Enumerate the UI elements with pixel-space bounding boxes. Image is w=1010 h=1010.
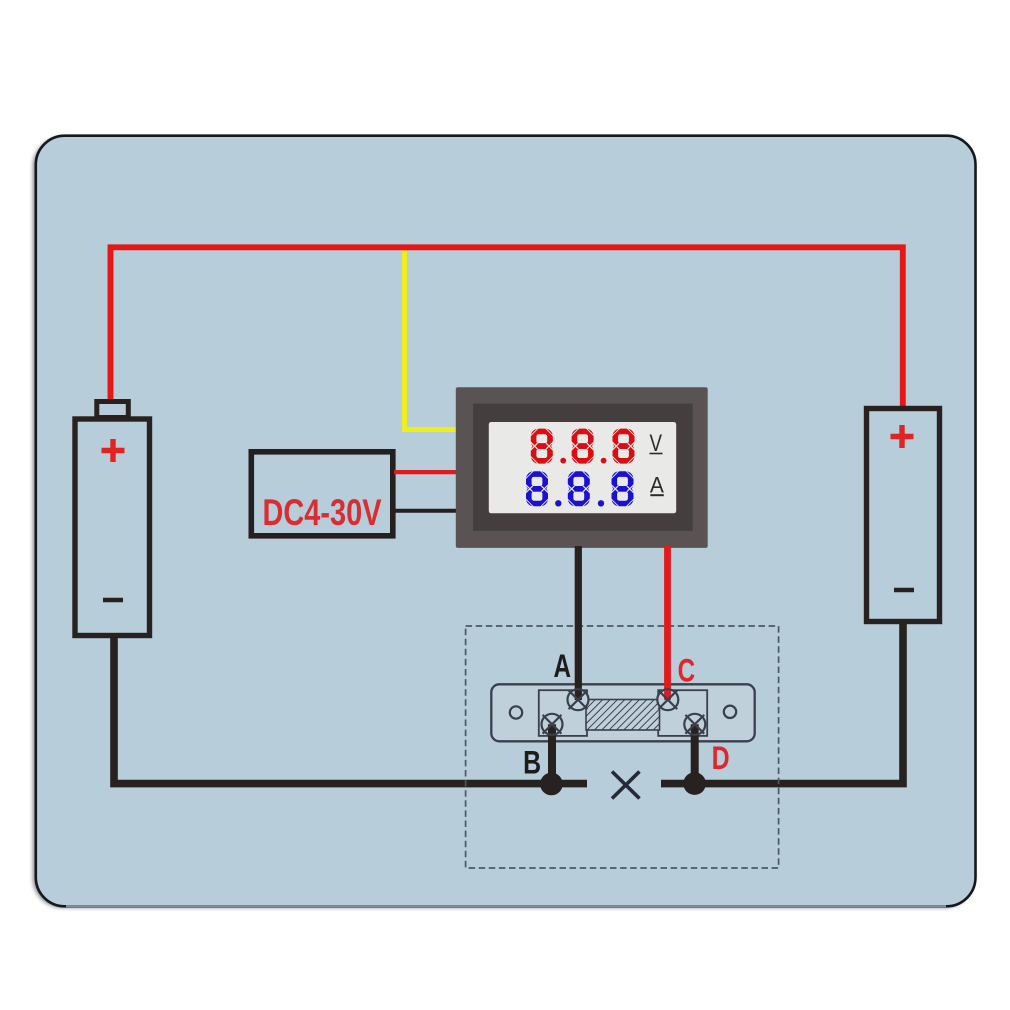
BT1 body — [75, 419, 150, 636]
BT2 minus sign — [894, 588, 914, 593]
svg-text:D: D — [712, 740, 730, 776]
wire: black from controller to meter — [394, 509, 457, 513]
wire: BT1 - to shunt B — [114, 637, 587, 784]
panel shadow — [33, 138, 974, 908]
wire: black from meter to shunt bolt A — [575, 546, 582, 700]
wire segment from bolt B down to node B — [548, 724, 556, 783]
svg-text:A: A — [650, 473, 664, 498]
current decimal points — [555, 500, 604, 506]
break symbol X (open link) — [612, 772, 640, 799]
svg-text:B: B — [523, 745, 541, 781]
R1 left terminal block — [539, 690, 587, 736]
meter voltage digits 8.8.8 (red) — [530, 428, 635, 464]
R1 left mounting hole — [510, 706, 522, 718]
svg-text:DC4-30V: DC4-30V — [263, 492, 382, 533]
junction node D dot — [683, 772, 706, 795]
label A with underline — [650, 473, 664, 498]
svg-text:C: C — [678, 652, 696, 688]
shunt bolt B — [542, 714, 563, 735]
panel background — [36, 136, 976, 907]
R1 resistance element (hatched) — [586, 700, 660, 731]
battery BT1 — [75, 402, 150, 636]
wire: red from meter to shunt bolt C — [664, 546, 671, 700]
shunt bolt A — [568, 689, 589, 710]
wire: yellow sense wire to meter — [405, 251, 457, 430]
M1 outer bezel — [456, 387, 708, 548]
svg-text:A: A — [554, 648, 572, 684]
node label A — [554, 648, 572, 684]
BT1 minus sign — [103, 598, 123, 603]
shunt bolt C — [657, 689, 678, 710]
BT2 plus sign — [891, 425, 914, 448]
voltage decimal points — [560, 458, 606, 464]
bolt pads (under wires) — [542, 690, 704, 734]
controller box U1 — [251, 452, 392, 536]
R1 right mounting hole — [724, 706, 736, 718]
node label B — [523, 745, 541, 781]
U1 outline — [251, 452, 392, 536]
node label D — [712, 740, 730, 776]
BT1 plus sign — [102, 439, 125, 462]
wire segment from bolt D down to node D — [691, 724, 699, 783]
BT2 body — [867, 409, 940, 622]
label V with underline — [650, 430, 663, 457]
node label C — [678, 652, 696, 688]
junction node B dot — [540, 773, 563, 796]
R1 right terminal block — [658, 690, 707, 736]
M1 display window — [489, 422, 676, 513]
M1 inner bezel — [473, 404, 693, 531]
shunt bolt D — [684, 714, 705, 735]
shunt R1 body — [491, 684, 754, 741]
R1 base plate — [491, 684, 754, 741]
dashed boundary box — [466, 626, 779, 868]
battery BT2 — [867, 409, 940, 622]
wire: shunt D to BT2 - — [661, 622, 903, 784]
wire: red from controller to meter — [394, 470, 457, 474]
wire: red positive bus (BT1 + to BT2 +) — [111, 247, 903, 408]
BT1 positive terminal cap — [97, 402, 129, 418]
meter current digits 8.8.8 (blue) — [526, 471, 635, 507]
meter M1 frame — [456, 387, 708, 548]
